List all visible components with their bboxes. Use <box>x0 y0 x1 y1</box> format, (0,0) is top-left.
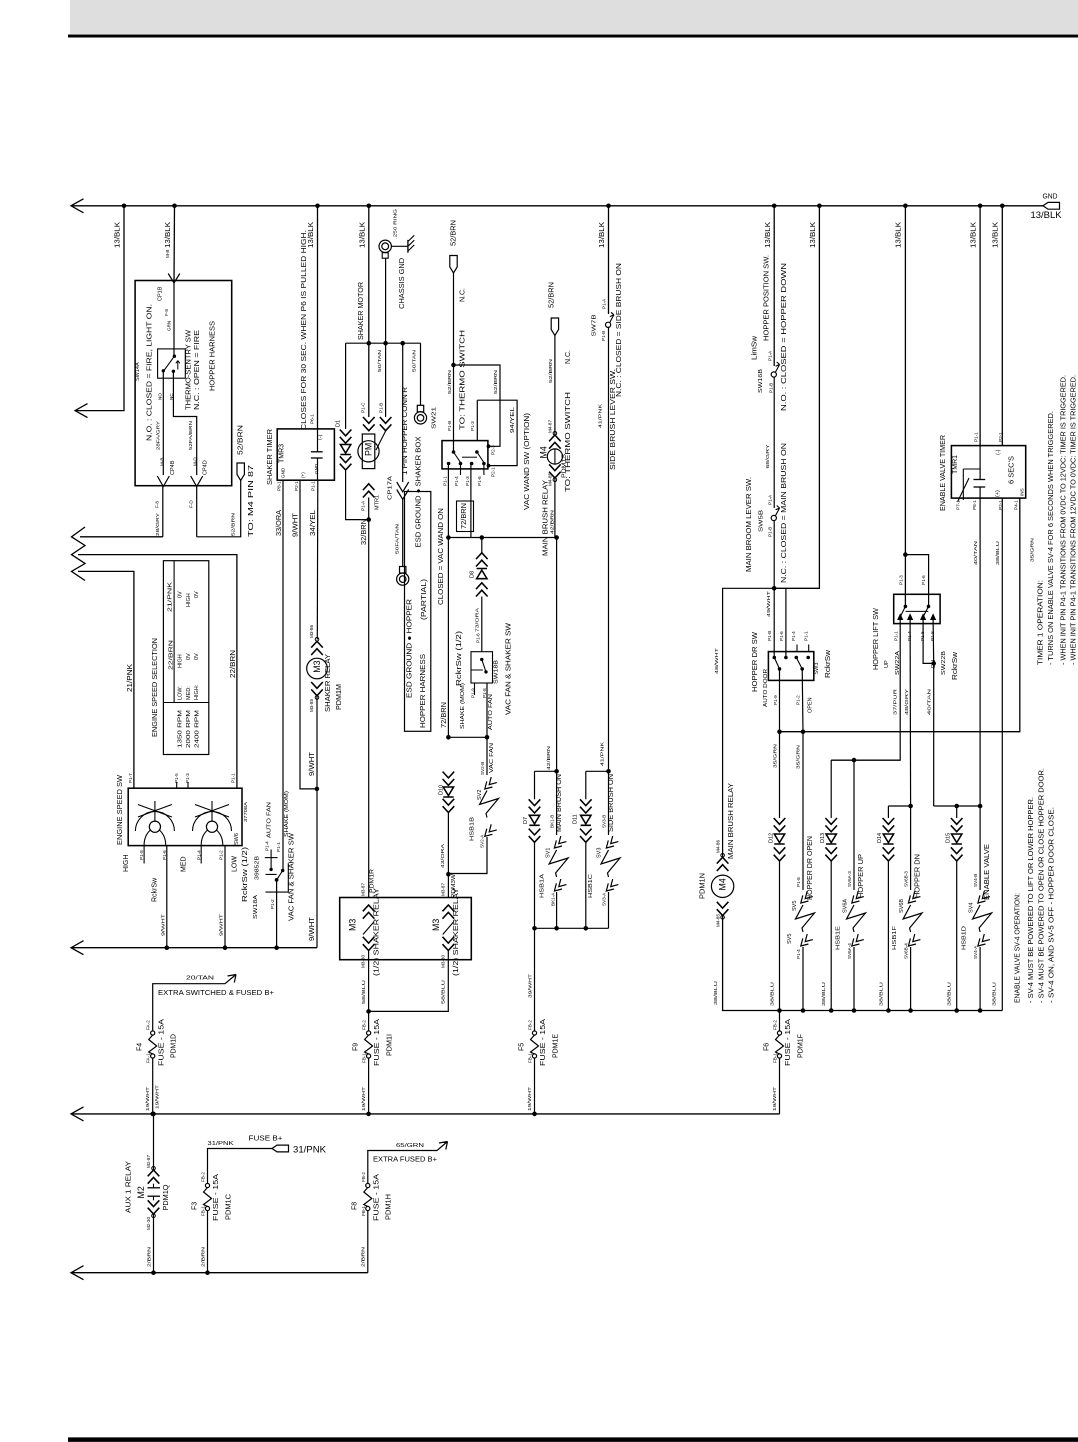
label LimSw sw16b <box>752 335 759 360</box>
diode D14 chain <box>883 806 895 1011</box>
svg-text:FUSE - 15A: FUSE - 15A <box>213 1174 220 1221</box>
svg-text:M4: M4 <box>539 446 549 458</box>
wire 72/BRN link <box>448 736 487 738</box>
pin P1-A sw5b <box>767 494 772 505</box>
svg-text:HIGH: HIGH <box>177 654 183 668</box>
junction 38blu net <box>801 1008 806 1013</box>
svg-text:M2-87: M2-87 <box>146 1155 151 1168</box>
connector 52/BRN to M4 pentagon <box>237 463 244 481</box>
svg-text:FB-1: FB-1 <box>362 1053 367 1063</box>
label 49/WHT <box>766 591 771 617</box>
label 13/BLK <box>896 222 903 248</box>
svg-text:P2-1: P2-1 <box>294 481 299 491</box>
pin GND tmr3 b <box>314 463 319 474</box>
svg-text:M4-86: M4-86 <box>715 840 720 853</box>
pin P2-1 tmr1 top <box>998 432 1003 442</box>
label FUSE - 15A f6 <box>785 1019 792 1066</box>
svg-text:19/WHT: 19/WHT <box>155 1085 160 1109</box>
svg-text:FB-2: FB-2 <box>361 1172 366 1182</box>
svg-text:M3-87: M3-87 <box>361 883 366 896</box>
pin P1-A <box>361 500 366 511</box>
svg-text:P1-8: P1-8 <box>796 877 801 887</box>
svg-text:LOW: LOW <box>232 856 239 872</box>
svg-text:RckrSw: RckrSw <box>952 651 959 680</box>
wire 38/BLU tmr1 <box>1001 498 1003 1010</box>
wire 72/BRN down left <box>447 538 449 738</box>
svg-text:SHAKER TIMER: SHAKER TIMER <box>267 429 274 485</box>
svg-text:- SV-4 MUST BE POWERED TO LIF: - SV-4 MUST BE POWERED TO LIFT OR LOWER … <box>1028 797 1035 1003</box>
connector 52/BRN pentagon 1 <box>450 256 457 274</box>
label HSB1D <box>962 926 968 950</box>
junction bus f5 <box>532 1112 537 1117</box>
label 13/BLK horizontal <box>1031 210 1062 220</box>
label 34/YEL <box>310 510 317 536</box>
wire 50/TAN chassis to PM <box>385 343 387 417</box>
label F4 <box>137 1043 144 1051</box>
label HSB1A <box>540 874 546 898</box>
junction 72BRN left <box>446 535 451 540</box>
label 68/GRY <box>765 445 770 469</box>
svg-text:D10: D10 <box>439 785 445 795</box>
wire 13/BLK to TMR1 P1-1 <box>979 206 981 446</box>
relay coil M4-2 <box>711 875 733 897</box>
label VAC FAN & SHAKER SW b <box>505 623 512 715</box>
label HSB1E <box>835 926 841 950</box>
pin P1-4 <box>196 850 201 860</box>
label D10 <box>439 785 445 795</box>
label 37/PUR <box>893 688 898 715</box>
label 94/YEL <box>510 407 516 433</box>
pin (+) tmr3 <box>300 472 305 478</box>
label 43/ORA <box>440 843 445 868</box>
svg-text:- TURNS ON ENABLE VALVE SV-4: - TURNS ON ENABLE VALVE SV-4 FOR 6 SECON… <box>1048 411 1055 665</box>
svg-text:.250 RING: .250 RING <box>393 208 398 239</box>
wire SV2 top <box>486 737 488 775</box>
svg-text:41/PNK: 41/PNK <box>600 741 605 766</box>
label GND <box>1043 194 1058 201</box>
svg-text:PDM1C: PDM1C <box>225 1194 232 1220</box>
label M2 <box>136 1186 146 1198</box>
label ESD GROUND SHAKER BOX <box>416 436 423 547</box>
wire 68/GRY <box>773 377 775 508</box>
junction on top bus <box>315 204 320 209</box>
junction 72BRN D8 <box>480 535 485 540</box>
svg-text:68/GRY: 68/GRY <box>765 445 770 469</box>
label SHAKER MOTOR <box>358 282 365 340</box>
svg-text:52/BRN: 52/BRN <box>231 513 236 536</box>
svg-text:FUSE - 15A: FUSE - 15A <box>374 1019 381 1066</box>
label 13/BLK <box>115 222 122 248</box>
svg-text:F-8: F-8 <box>155 501 160 508</box>
pin FB-2 f9 <box>362 1020 367 1030</box>
diode D10 <box>443 787 453 797</box>
pin P1-6 <box>162 850 167 860</box>
label RckrSw (1/2) sw18b <box>456 631 463 686</box>
svg-text:ENGINE SPEED SELECTION: ENGINE SPEED SELECTION <box>152 638 159 737</box>
wire 21/PNK to zigzag <box>78 571 134 788</box>
box engine speed switch SW6 <box>128 788 242 845</box>
label 22/BRN wire <box>230 650 237 678</box>
pin M4-87 <box>547 420 552 433</box>
label MTR1 <box>374 495 380 510</box>
pin P1-B sw21 <box>447 421 452 431</box>
svg-text:13/BLK: 13/BLK <box>599 222 606 248</box>
label M3 left <box>348 919 358 931</box>
switch SW18B contacts <box>471 658 488 674</box>
pin M-B <box>165 250 170 258</box>
label SV6A <box>842 899 848 913</box>
chassis ground ring terminal <box>379 240 391 343</box>
svg-text:P1-2: P1-2 <box>270 899 275 909</box>
pin P8-1 NC <box>972 500 977 510</box>
label SHAKE (MOM) sw18b <box>460 683 466 729</box>
label 38/BLU m4 <box>713 981 718 1005</box>
label TO: THERMO SWITCH 2 <box>565 392 572 492</box>
wire 22/BRN to zigzag <box>78 555 237 789</box>
label RckrSw sw3 <box>825 649 832 678</box>
svg-text:P1-3: P1-3 <box>185 773 190 783</box>
pin FB-1 f6 <box>773 1053 778 1063</box>
label 19/WHT m2 <box>155 1085 160 1109</box>
pin GND tmr3 <box>281 467 286 478</box>
wire 9/WHT TMR3 <box>300 480 317 789</box>
junction on top bus <box>903 204 908 209</box>
wire M3 left out <box>368 951 370 1012</box>
junction 38blu net <box>829 1008 834 1013</box>
label F6 <box>763 1043 770 1051</box>
label 19/WHT f6 <box>772 1087 777 1111</box>
svg-text:GND: GND <box>281 467 286 478</box>
pin M2-30 <box>146 1217 151 1230</box>
off-page zigzag bundle <box>72 527 86 581</box>
svg-text:19/WHT: 19/WHT <box>527 1087 532 1111</box>
svg-text:CP1B: CP1B <box>158 286 164 301</box>
svg-text:PDM1H: PDM1H <box>386 1194 393 1220</box>
connector 31/PNK pentagon <box>272 1145 289 1152</box>
wire PM to junction <box>368 498 370 520</box>
svg-text:35/GRN: 35/GRN <box>1030 538 1035 562</box>
connector GND 13/BLK <box>1043 202 1060 209</box>
pin P1-3 <box>185 773 190 783</box>
pin P1-C <box>361 402 366 413</box>
svg-text:M3: M3 <box>312 660 322 672</box>
junction F3 bottom <box>205 1270 210 1275</box>
label HOPPER LIFT SW <box>873 608 880 670</box>
note TIMER 1 OPERATION <box>1038 580 1045 665</box>
svg-text:HOPPER DN: HOPPER DN <box>915 854 922 898</box>
label D14 <box>877 833 883 843</box>
wire M4 coil to 72BRN net <box>554 477 556 538</box>
svg-text:CLOSED = VAC WAND ON: CLOSED = VAC WAND ON <box>438 508 445 605</box>
pin M3-30 right <box>440 955 445 968</box>
label THERMO-SENTRY SW <box>186 330 193 410</box>
pin M4-85 2 <box>715 914 720 927</box>
svg-text:UP: UP <box>884 660 890 668</box>
pin P1-1 sw3 <box>803 631 808 641</box>
label PDM1E <box>552 1034 559 1058</box>
label HOPPER UP <box>858 854 865 898</box>
svg-text:PDM1Q: PDM1Q <box>163 1184 170 1211</box>
label SV5 a <box>792 901 798 911</box>
label 2/BRN f8 <box>361 1247 366 1267</box>
svg-text:CHASSIS GND: CHASSIS GND <box>399 258 406 309</box>
label D1 <box>335 420 341 427</box>
label N.C. CLOSED SIDE BRUSH ON <box>616 263 623 397</box>
wire 40/TAN sw22 <box>923 620 934 807</box>
label MAIN BRUSH RELAY 2 <box>728 783 735 859</box>
pin P1-6 sw21 <box>477 476 482 486</box>
svg-text:- SV-4 MUST BE POWERED TO OPE: - SV-4 MUST BE POWERED TO OPEN OR CLOSE … <box>1039 768 1046 1003</box>
junction 40tan D15 <box>954 804 959 809</box>
pin F-D CP4D <box>189 500 194 508</box>
pin M-D <box>192 457 197 466</box>
svg-text:SHAKER MOTOR: SHAKER MOTOR <box>358 282 365 340</box>
label 13/BLK <box>165 222 172 248</box>
svg-text:M4-87: M4-87 <box>547 420 552 433</box>
svg-text:P1-6: P1-6 <box>779 631 784 641</box>
label 38/BLU <box>992 982 997 1006</box>
pin BK1-A <box>550 892 555 906</box>
svg-text:VAC FAN: VAC FAN <box>489 743 495 773</box>
svg-text:N.O. : CLOSED = FIRE, LIGHT: N.O. : CLOSED = FIRE, LIGHT ON. <box>147 304 154 441</box>
solenoid SV5 chain <box>796 732 815 1011</box>
pin SV3-A <box>602 892 607 906</box>
svg-text:P1-3: P1-3 <box>465 476 470 486</box>
label 58/BLU left <box>361 980 366 1004</box>
junction 38blu net <box>954 1008 959 1013</box>
svg-text:M-B: M-B <box>165 250 170 258</box>
label SW16B <box>758 369 764 393</box>
ring terminal ESD hopper <box>397 567 409 586</box>
off-page arrow 19/WHT bus <box>71 1107 84 1121</box>
wire 33/ORA TMR3 to SW18A <box>282 480 284 870</box>
svg-text:52/BRN: 52/BRN <box>549 282 556 308</box>
label 13/BLK <box>810 222 817 248</box>
label 9/WHT at bus <box>309 916 316 941</box>
svg-text:CLOSES FOR 30 SEC. WHEN P: CLOSES FOR 30 SEC. WHEN P6 IS PULLED HIG… <box>301 230 308 430</box>
svg-text:D11: D11 <box>573 814 579 824</box>
svg-text:HSB1E: HSB1E <box>835 926 841 950</box>
label PDM1D <box>171 1034 178 1058</box>
svg-text:SHAKER RELAY: SHAKER RELAY <box>325 654 332 712</box>
wire D8 to SW18B <box>481 597 483 652</box>
svg-text:58/BLU: 58/BLU <box>441 980 446 1004</box>
table engine speed selection <box>163 561 208 755</box>
relay coil M3 chevrons top <box>311 638 323 656</box>
relay coil M2 chevrons top <box>148 1167 160 1184</box>
label CP17A <box>387 476 393 500</box>
label HOPPER DR SW <box>752 632 759 692</box>
switch SW21 contacts <box>447 450 486 465</box>
label 13/BLK <box>308 222 315 248</box>
label box 72/BRN <box>457 501 474 532</box>
pin M4-86 <box>715 840 720 853</box>
junction 42BRN <box>554 769 559 774</box>
label TMR1 <box>952 455 959 474</box>
svg-text:HSB1C: HSB1C <box>588 874 594 898</box>
svg-text:38/BLU: 38/BLU <box>878 982 883 1006</box>
label CLOSED = VAC WAND ON <box>438 508 445 605</box>
svg-text:TO: THERMO SWITCH: TO: THERMO SWITCH <box>459 330 466 430</box>
svg-text:1350 RPM: 1350 RPM <box>177 709 183 748</box>
label ENABLE VALVE sv4 <box>984 844 991 900</box>
pin P1-B sw16b <box>769 383 774 393</box>
switch SW5B <box>771 506 779 521</box>
svg-text:P1-5: P1-5 <box>920 631 925 641</box>
label SIDE BRUSH LEVER SW. <box>610 369 617 470</box>
svg-text:VAC WAND SW (OPTION): VAC WAND SW (OPTION) <box>524 413 531 510</box>
label 31/PNK big <box>293 1145 326 1155</box>
svg-text:P1-B: P1-B <box>378 403 383 413</box>
label CHASSIS GND <box>399 258 406 309</box>
wire bus 9/WHT <box>72 947 317 949</box>
pin stub P1-6 sw21 <box>483 464 485 476</box>
wire sw21 94yel top <box>476 400 478 440</box>
svg-text:N.C. : CLOSED = SIDE BRUS: N.C. : CLOSED = SIDE BRUSH ON <box>616 263 623 397</box>
wire F6 top <box>779 1011 781 1032</box>
svg-text:28/GRY: 28/GRY <box>155 513 160 536</box>
svg-text:SV2: SV2 <box>477 790 483 800</box>
junction 58BLU <box>366 1009 371 1014</box>
wire bus 19/WHT <box>72 1113 780 1115</box>
diode D8 chevrons bottom <box>476 583 488 597</box>
svg-text:48/GRY: 48/GRY <box>904 689 909 715</box>
switch SW14A thermo-sentry box <box>158 349 186 378</box>
svg-text:38/BLU: 38/BLU <box>992 982 997 1006</box>
pin P1-6 sw22 <box>921 575 926 585</box>
wire 13/BLK to TMR3 <box>317 206 319 429</box>
label SHAKER TIMER <box>267 429 274 485</box>
svg-text:(-): (-) <box>995 449 1001 455</box>
label PDM1M <box>336 684 343 710</box>
wire F6 bottom <box>779 1058 781 1114</box>
label 35/GRN tmr1 <box>1030 538 1035 562</box>
label 38/BLU <box>947 982 952 1006</box>
svg-text:PDM1S: PDM1S <box>561 454 567 478</box>
label N.C. thermo1 <box>459 288 466 302</box>
label 40/TAN sw22 <box>927 689 932 715</box>
label SV6B <box>899 899 905 913</box>
label 38/BLU <box>770 982 775 1006</box>
label SV5 b <box>787 934 793 944</box>
svg-text:P1-8: P1-8 <box>930 631 935 641</box>
svg-text:P1-B: P1-B <box>767 527 772 537</box>
switch SW3 box <box>768 652 813 681</box>
label EXTRA FUSED B+ <box>373 1157 437 1164</box>
wire 52/BRN pent2 to M4 <box>554 336 556 436</box>
junction coll D11 <box>584 926 589 931</box>
switch SW7B <box>606 312 614 327</box>
label 19/WHT f5 <box>527 1087 532 1111</box>
pin FB-2 f3 <box>201 1172 206 1182</box>
label 41/PNK upper <box>597 403 602 428</box>
label D15 <box>946 833 952 843</box>
svg-text:P1-B: P1-B <box>767 631 772 641</box>
svg-text:CP17A: CP17A <box>387 476 393 500</box>
svg-text:52/BRN: 52/BRN <box>450 220 457 246</box>
label FUSE - 15A f5 <box>540 1019 547 1066</box>
pin SV4-B <box>973 874 978 887</box>
svg-text:D8: D8 <box>469 571 475 578</box>
off-page arrow left 2 <box>75 404 88 418</box>
wire 13/BLK to TMR1 P2-1 <box>1001 206 1003 446</box>
wire SW21 P1-1 down <box>447 464 449 538</box>
svg-text:P1-4: P1-4 <box>907 631 912 641</box>
svg-text:SV2-B: SV2-B <box>480 762 485 775</box>
svg-text:SV6A: SV6A <box>842 899 848 913</box>
label N.O. CLOSED HOPPER DOWN <box>781 263 788 411</box>
svg-text:35/GRN: 35/GRN <box>796 745 801 769</box>
svg-text:P1-1: P1-1 <box>276 842 281 852</box>
pin stub P1-3 <box>187 782 189 788</box>
label FUSE B+ <box>249 1136 283 1143</box>
pin P1-B sw7b <box>601 331 606 341</box>
svg-text:P1-6: P1-6 <box>921 575 926 585</box>
svg-text:P1-A: P1-A <box>767 350 772 361</box>
label GRN <box>167 321 172 331</box>
svg-text:AUTO DOOR: AUTO DOOR <box>763 669 769 707</box>
wire 50FA/TAN <box>402 499 404 566</box>
svg-text:HOPPER HARNESS: HOPPER HARNESS <box>209 321 216 391</box>
label 52/BRN branch <box>493 370 498 394</box>
junction M2 bottom <box>151 1270 156 1275</box>
junction on top bus <box>367 204 372 209</box>
svg-text:N.C.: N.C. <box>459 288 466 302</box>
svg-text:BK1-B: BK1-B <box>550 815 555 828</box>
svg-text:FB-2: FB-2 <box>201 1172 206 1182</box>
svg-text:AUX 1 RELAY: AUX 1 RELAY <box>126 1161 133 1213</box>
svg-text:13/BLK: 13/BLK <box>896 222 903 248</box>
svg-text:AUTO FAN: AUTO FAN <box>266 802 272 838</box>
svg-text:SV1: SV1 <box>545 848 551 858</box>
svg-text:M2: M2 <box>136 1186 146 1198</box>
svg-text:FUSE - 15A: FUSE - 15A <box>158 1019 165 1066</box>
junction 40tan merge <box>931 661 936 666</box>
switch SW14A contacts <box>162 355 180 373</box>
svg-text:(1/2) SHAKER RELAY: (1/2) SHAKER RELAY <box>453 888 460 976</box>
svg-text:ENABLE VALVE SV-4 OPERATION:: ENABLE VALVE SV-4 OPERATION: <box>1015 893 1022 1003</box>
wire 9/WHT switch pole1 <box>166 846 168 948</box>
pin SV6B-3 <box>904 871 909 887</box>
svg-text:HIGH: HIGH <box>123 855 130 873</box>
svg-text:P8-1: P8-1 <box>972 500 977 510</box>
wire 52/BRN to M4 pin 87 pentagon <box>197 481 241 537</box>
label PDM1R <box>370 869 376 893</box>
relay coil M4 chevrons top <box>549 432 561 449</box>
svg-text:39/WHT: 39/WHT <box>528 974 533 998</box>
label SW22B <box>941 651 947 675</box>
svg-text:P1-7: P1-7 <box>128 773 133 783</box>
svg-text:21/PNK: 21/PNK <box>127 664 134 692</box>
pin P1-B label <box>378 403 383 413</box>
svg-text:MAIN BROOM LEVER SW.: MAIN BROOM LEVER SW. <box>746 477 753 572</box>
label HOPPER POSITION SW. <box>763 255 770 341</box>
wire 13/BLK to SW7B <box>608 206 610 314</box>
svg-text:P1-6: P1-6 <box>477 476 482 486</box>
timer TMR1 box <box>951 446 1025 499</box>
relay coil M4 <box>547 449 562 464</box>
svg-text:THERMO-SENTRY SW: THERMO-SENTRY SW <box>186 330 193 410</box>
label ENABLE VALVE TIMER <box>940 435 947 511</box>
wire 13/BLK to PM <box>368 206 370 417</box>
label 9/WHT b <box>219 914 224 936</box>
svg-text:P1-1: P1-1 <box>230 773 235 783</box>
label M4 coil1 <box>539 446 549 458</box>
svg-text:2000 RPM: 2000 RPM <box>186 709 192 748</box>
connector CP4D exit chevron <box>191 476 203 487</box>
svg-text:F8: F8 <box>352 1202 359 1210</box>
junction 9WHT M3 <box>315 787 320 792</box>
